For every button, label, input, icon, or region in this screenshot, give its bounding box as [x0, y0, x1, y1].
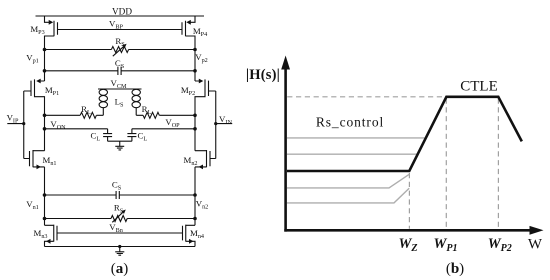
- svg-text:VDD: VDD: [112, 7, 132, 17]
- svg-text:(a): (a): [111, 261, 129, 277]
- svg-text:(b): (b): [446, 261, 464, 277]
- svg-text:CTLE: CTLE: [460, 78, 498, 94]
- svg-text:W: W: [528, 236, 543, 252]
- svg-text:|H(s)|: |H(s)|: [246, 67, 280, 83]
- svg-text:Rs_control: Rs_control: [316, 115, 384, 130]
